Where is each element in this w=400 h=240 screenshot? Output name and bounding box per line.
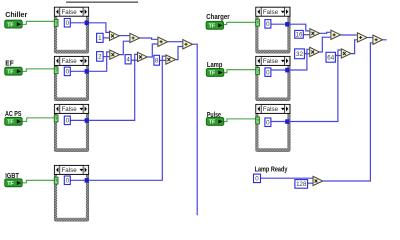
multiply x4 (IGBT*8) — [166, 55, 176, 64]
wire Pulse to case selector — [224, 119, 256, 122]
wire Chiller case out to multiply x1 — [70, 23, 109, 33]
case structure AC PS — [54, 104, 89, 151]
svg-text:?: ? — [256, 118, 259, 123]
svg-text:False: False — [62, 106, 78, 113]
multiply x6 (Lamp*32) — [310, 47, 320, 56]
constant 0 in IGBT case — [64, 176, 70, 185]
boolean terminal Chiller — [5, 20, 22, 28]
boolean terminal Pulse — [206, 118, 223, 126]
wire add2 to add3 — [168, 41, 182, 43]
case structure EF — [54, 56, 89, 100]
wire AC PS to case selector — [22, 118, 55, 122]
wire IGBT to case selector — [22, 180, 54, 183]
svg-text:False: False — [263, 106, 279, 113]
svg-text:False: False — [62, 58, 78, 65]
add3 — [183, 40, 193, 49]
wire multiply x4 to add3 — [176, 47, 182, 60]
wire Lamp to case selector — [224, 70, 256, 73]
constant Lamp Ready 0 — [254, 174, 261, 183]
wire multiply x2 to add1 — [120, 41, 130, 54]
svg-text:128: 128 — [296, 181, 307, 188]
multiply x3 (AC PS*4) — [138, 52, 148, 61]
wire multiply x3 to add2 — [148, 44, 158, 57]
wire add6 output stub — [383, 39, 387, 41]
wire multiply x128 to add6 — [323, 43, 372, 181]
output tunnel Charger case — [285, 22, 289, 27]
svg-text:0: 0 — [66, 118, 70, 125]
constant 0 in Charger case — [265, 20, 271, 29]
svg-text:0: 0 — [66, 69, 70, 76]
case structure Lamp — [256, 56, 291, 100]
boolean terminal Charger — [206, 21, 223, 29]
case structure Charger — [256, 7, 291, 53]
constant 2 — [97, 52, 104, 62]
wire constant 4 to multiply x3 — [131, 59, 138, 61]
svg-text:64: 64 — [327, 54, 334, 61]
boolean terminal EF — [5, 67, 22, 75]
constant 0 in Lamp case — [265, 68, 271, 77]
add2 — [158, 37, 168, 46]
svg-text:TF: TF — [209, 24, 216, 30]
wire IGBT case out to multiply x4 — [70, 56, 165, 180]
svg-text:0: 0 — [266, 21, 270, 28]
case selector terminal AC PS — [54, 115, 58, 122]
wire Lamp Ready constant to multiply x128 — [261, 177, 313, 179]
wire constant 1 to multiply x1 — [103, 37, 109, 39]
add4 — [331, 30, 341, 39]
svg-text:TF: TF — [7, 120, 14, 126]
output tunnel AC PS case — [85, 118, 89, 123]
svg-text:False: False — [62, 167, 78, 174]
svg-text:TF: TF — [7, 22, 14, 28]
case selector terminal EF — [54, 67, 58, 74]
svg-text:?: ? — [256, 69, 259, 74]
constant 16 — [295, 30, 304, 38]
wire multiply x1 to add1 — [120, 35, 130, 37]
svg-text:TF: TF — [7, 69, 14, 75]
case selector terminal IGBT — [54, 177, 58, 184]
svg-text:IGBT: IGBT — [5, 171, 19, 180]
svg-text:0: 0 — [266, 119, 270, 126]
wire constant 8 to multiply x4 — [159, 59, 165, 61]
svg-text:4: 4 — [126, 56, 130, 63]
constant 4 — [125, 55, 131, 64]
constant 32 — [295, 49, 305, 59]
svg-text:Pulse: Pulse — [207, 110, 221, 119]
svg-text:8: 8 — [155, 57, 159, 64]
wire Lamp case out to multiply x32 — [271, 49, 309, 70]
svg-text:?: ? — [55, 68, 58, 73]
svg-text:TF: TF — [209, 71, 216, 77]
svg-text:Lamp Ready: Lamp Ready — [255, 164, 288, 173]
multiply x8 (Lamp Ready*128) — [313, 176, 323, 185]
boolean terminal IGBT — [5, 179, 22, 187]
svg-text:32: 32 — [296, 51, 303, 58]
svg-text:False: False — [62, 9, 78, 16]
svg-text:0: 0 — [66, 177, 70, 184]
svg-text:2: 2 — [98, 54, 102, 61]
svg-text:Charger: Charger — [206, 12, 229, 21]
wire constant 64 to multiply x64 — [336, 55, 341, 57]
wire Chiller to case selector — [22, 21, 54, 24]
constant 0 in EF case — [64, 67, 70, 76]
wire add1 to add2 — [140, 38, 158, 39]
constant 8 — [154, 55, 160, 65]
output tunnel IGBT case — [85, 178, 89, 183]
svg-text:Lamp: Lamp — [207, 60, 223, 69]
svg-text:AC PS: AC PS — [5, 109, 22, 118]
wire EF to case selector — [22, 69, 54, 72]
svg-text:Chiller: Chiller — [5, 10, 27, 19]
boolean terminal Lamp — [206, 69, 223, 77]
svg-text:False: False — [263, 9, 279, 16]
case selector terminal Charger — [256, 19, 260, 26]
constant 0 in AC PS case — [64, 116, 70, 125]
case structure Pulse — [256, 104, 291, 151]
wire multiply x16 to add4 — [320, 32, 331, 33]
svg-text:0: 0 — [266, 69, 270, 76]
case structure Chiller — [54, 7, 89, 53]
wire add5 to add6 — [367, 37, 372, 39]
multiply x2 (EF*2) — [110, 50, 120, 59]
add1 — [130, 33, 140, 42]
case selector terminal Pulse — [256, 117, 260, 124]
svg-text:0: 0 — [255, 176, 259, 183]
constant 64 — [326, 52, 335, 62]
svg-text:TF: TF — [209, 120, 216, 126]
output tunnel EF case — [85, 69, 89, 74]
svg-text:?: ? — [55, 178, 58, 183]
wire constant 16 to multiply x16 — [303, 34, 309, 36]
case structure IGBT — [54, 165, 89, 221]
output tunnel Chiller case — [85, 21, 89, 26]
add5 — [357, 33, 367, 42]
svg-text:TF: TF — [7, 181, 14, 187]
wire constant 32 to multiply x32 — [304, 53, 309, 55]
svg-text:?: ? — [55, 20, 58, 25]
wire multiply x32 to add4 — [320, 37, 331, 52]
svg-text:False: False — [263, 58, 279, 65]
constant 0 in Pulse case — [265, 118, 271, 127]
wire constant 2 to multiply x2 — [103, 56, 109, 58]
output tunnel Pulse case — [285, 119, 289, 124]
wire multiply x64 to add5 — [351, 40, 357, 54]
case selector terminal Chiller — [54, 19, 58, 26]
svg-text:EF: EF — [5, 58, 14, 67]
cropped structure border top — [66, 1, 138, 3]
svg-text:16: 16 — [296, 32, 303, 39]
multiply x7 (Pulse*64) — [341, 49, 351, 58]
wire Charger to case selector — [224, 22, 256, 24]
wire add4 to add5 — [341, 34, 357, 36]
svg-text:?: ? — [55, 116, 58, 121]
wire AC PS case out to multiply x3 — [70, 54, 137, 120]
wire add3 output down — [193, 44, 197, 215]
add6 — [373, 35, 383, 44]
wire constant 128 to multiply x128 — [308, 182, 313, 184]
boolean terminal AC PS — [5, 117, 22, 125]
wire Pulse case out to multiply x64 — [271, 50, 341, 122]
constant 128 — [295, 180, 308, 189]
constant 0 in Chiller case — [64, 19, 70, 28]
wire EF case out to multiply x2 — [70, 52, 109, 71]
svg-text:1: 1 — [98, 35, 102, 42]
wire Charger case out to multiply x16 — [271, 24, 310, 31]
svg-text:?: ? — [256, 20, 259, 25]
multiply x1 (Chiller*1) — [110, 31, 120, 40]
constant 1 — [97, 33, 104, 42]
multiply x5 (Charger*16) — [310, 29, 320, 38]
svg-text:0: 0 — [66, 20, 70, 27]
output tunnel Lamp case — [285, 68, 289, 73]
case selector terminal Lamp — [256, 68, 260, 75]
